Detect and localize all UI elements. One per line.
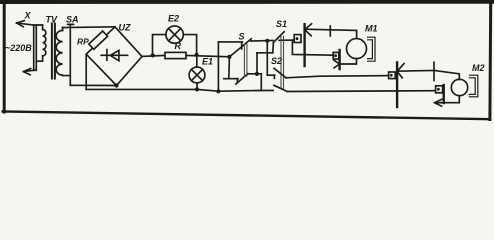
wire connector to M1 top <box>305 29 357 38</box>
transformer T1 secondary winding <box>56 27 70 75</box>
wire SA bottom to bridge bottom corner <box>70 84 116 86</box>
svg-text:R: R <box>175 41 182 51</box>
svg-text:RP: RP <box>77 37 89 47</box>
resistor RP on bridge edge <box>89 31 108 49</box>
node S pole2 output junction <box>255 72 259 76</box>
wire R to switch S <box>186 55 229 56</box>
terminal tick M1 feed <box>329 26 331 36</box>
wire S1 junction down to S2 <box>266 41 268 75</box>
wire secondary top to bridge <box>63 26 115 29</box>
switch S pole1 contact wire <box>218 42 242 49</box>
wire S pole2 output <box>248 74 261 91</box>
lamp E2 <box>166 26 183 43</box>
wire M1 return to S1 wire <box>292 40 333 55</box>
diode inside bridge <box>101 50 127 61</box>
switch S pole2 contact stub <box>224 79 238 83</box>
connector socket fork X1b <box>334 60 340 68</box>
node switch S common <box>227 55 231 59</box>
node E1 bus junction <box>195 87 199 91</box>
bridge rectifier UZ diamond <box>86 27 142 86</box>
switch S pole2 blade <box>236 74 248 84</box>
transformer T1 core <box>52 24 55 79</box>
wire distribution riser <box>256 53 258 74</box>
connector box X2a <box>389 72 396 79</box>
resistor R <box>165 52 186 58</box>
switch S1 S2 gang link <box>281 36 284 88</box>
switch SA vertical element <box>68 24 74 85</box>
wire M1 bottom return <box>340 59 357 64</box>
node bridge bottom junction <box>114 83 118 87</box>
wire distribution bar <box>257 52 273 54</box>
wire S2 output to connector <box>286 76 388 78</box>
wire S contact down to bus <box>217 42 219 92</box>
terminal tick M2 feed <box>433 62 435 80</box>
motor M1 <box>347 39 367 59</box>
svg-text:E2: E2 <box>168 14 179 24</box>
svg-text:S2: S2 <box>271 56 282 66</box>
svg-text:~220В: ~220В <box>5 43 32 53</box>
node E1 top junction <box>195 53 199 57</box>
svg-text:S: S <box>239 32 245 42</box>
connector box X2b <box>436 86 443 93</box>
connector box X1b <box>333 52 339 59</box>
transformer T1 primary winding <box>36 25 46 61</box>
svg-text:UZ: UZ <box>119 23 131 33</box>
wire E1 bottom <box>196 83 198 90</box>
wire riser to S1 blade <box>272 42 275 52</box>
switch S gang link <box>244 44 247 76</box>
wire E1 top <box>196 55 198 67</box>
wire connector to M2 top <box>397 70 459 79</box>
wire E2 right branch <box>183 35 196 55</box>
connector bar X1 <box>303 24 305 66</box>
connector box X1a <box>294 35 301 43</box>
switch S1 blade <box>273 32 284 43</box>
wire bridge right corner to resistor R <box>142 55 165 56</box>
wire S1 output <box>279 39 294 41</box>
node E2 left branch <box>151 53 155 57</box>
connector bar X1b <box>338 50 340 69</box>
node S1 input junction <box>265 39 269 43</box>
svg-text:X: X <box>24 11 32 21</box>
bus wire bottom left <box>86 89 273 91</box>
connector plug fork X2a <box>397 64 404 78</box>
wire S contact to S1 <box>251 40 273 43</box>
connector bar X2b <box>443 85 445 103</box>
svg-text:SA: SA <box>66 15 79 25</box>
svg-text:S1: S1 <box>276 19 287 29</box>
switch S3 bus blade <box>274 85 287 91</box>
bus wire right section <box>287 90 435 93</box>
border frame <box>0 0 494 120</box>
node bus S junction <box>216 89 220 93</box>
wire mains pair verticals <box>34 25 37 71</box>
wire S common down <box>228 57 231 79</box>
motor M1 brush bracket <box>368 37 375 61</box>
connector arrow M2 return <box>435 99 442 106</box>
svg-text:E1: E1 <box>202 57 213 67</box>
connector X top arrow <box>17 21 37 27</box>
wire E2 left branch <box>153 35 166 56</box>
switch S2 blade <box>274 68 286 78</box>
switch S2 contact stub <box>267 75 274 78</box>
svg-text:M1: M1 <box>365 24 378 34</box>
motor M2 brush bracket <box>469 75 477 97</box>
motor M2 <box>451 79 467 95</box>
switch S pole1 blade <box>229 39 251 57</box>
wire M2 bottom return <box>441 96 459 103</box>
lamp E1 <box>189 67 205 83</box>
connector plug fork X1a <box>305 24 312 36</box>
connector X bottom arrow <box>23 69 36 75</box>
svg-text:M2: M2 <box>472 63 485 73</box>
wire bridge left corner down to bus <box>85 54 87 89</box>
connector bar X2 <box>396 62 398 107</box>
